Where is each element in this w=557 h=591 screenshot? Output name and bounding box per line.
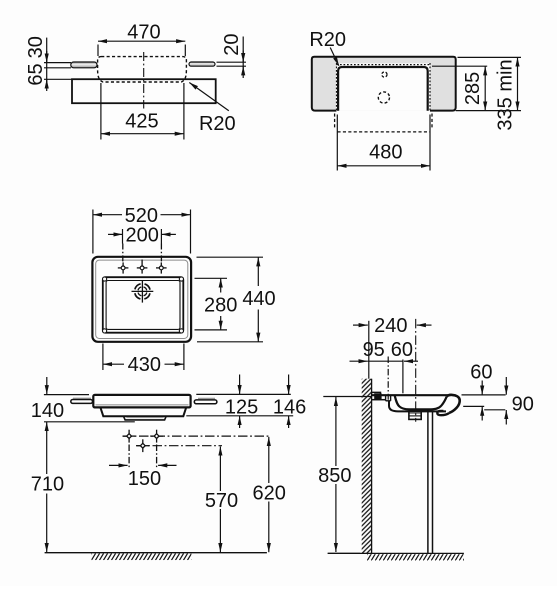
dim 850 [328, 397, 361, 553]
dim 146 arrows [288, 375, 290, 429]
dim 30 / 65 left column [44, 38, 73, 91]
dim 150 [109, 464, 177, 466]
supply centreline horizontal (620 datum) [123, 435, 272, 437]
basin lower body [100, 407, 186, 416]
basin section: wall bracket (solid) [374, 393, 381, 399]
towel bar right (gray pill) [189, 62, 215, 66]
svg-text:570: 570 [205, 490, 238, 512]
dim 480 [337, 115, 430, 171]
svg-text:240: 240 [374, 315, 407, 337]
basin section: bottom exterior [389, 401, 446, 412]
svg-text:60: 60 [470, 361, 492, 383]
dim 335 min [456, 57, 521, 110]
svg-text:425: 425 [125, 111, 158, 133]
supply centreline horizontal (570 datum) [136, 445, 222, 447]
bowl outer edge [103, 277, 184, 333]
dim 90 (right) [484, 377, 506, 425]
svg-text:140: 140 [31, 400, 64, 422]
basin cutout white area [336, 63, 430, 110]
floor hatching (view E) [367, 554, 464, 561]
dim 620 [268, 437, 270, 552]
svg-text:65: 65 [25, 63, 47, 85]
supply point centre (drain) [136, 439, 149, 452]
counter gray surface [312, 57, 456, 111]
dim 285 [432, 66, 487, 110]
basin section: mounting ledge underside [372, 399, 385, 401]
dim 140 [46, 377, 48, 394]
R20 leader arrow (view B) [330, 48, 339, 66]
tap hole left [118, 244, 129, 274]
drain tab [124, 416, 167, 420]
svg-text:30: 30 [25, 36, 47, 58]
drain target symbol [132, 280, 154, 302]
svg-text:440: 440 [242, 288, 275, 310]
dim 280 [195, 278, 228, 330]
svg-text:R20: R20 [309, 29, 346, 51]
dim 240 [353, 321, 432, 379]
bowl inner edge [106, 281, 180, 330]
dim 425 [101, 83, 184, 140]
svg-text:150: 150 [128, 468, 161, 490]
rim top reference line right [196, 393, 290, 395]
svg-text:95: 95 [363, 339, 385, 361]
svg-text:480: 480 [369, 142, 402, 164]
basin outer rim [92, 257, 191, 342]
dim 60 (right) [462, 381, 506, 421]
basin section: rim top surface [372, 394, 451, 396]
dim 20 right column [217, 37, 247, 79]
bowl corner dots [103, 277, 184, 333]
floor line (view E) [328, 552, 464, 554]
basin hidden contour (dashed rounded rect) [98, 57, 187, 82]
rim level reference line (850 datum) [323, 396, 371, 398]
bottom reference line left (140/710 datum) [44, 421, 135, 423]
wall hatching [362, 379, 372, 554]
svg-text:850: 850 [318, 465, 351, 487]
basin hidden bottom (dashed) [335, 114, 432, 132]
svg-text:60: 60 [391, 339, 413, 361]
towel rail right (front) [198, 397, 215, 399]
svg-text:710: 710 [31, 474, 64, 496]
svg-text:90: 90 [512, 393, 534, 415]
drain tab shade [127, 417, 164, 419]
towel bar left (gray pill) [71, 62, 97, 68]
dim 440 [197, 257, 264, 342]
basin section: back lip [372, 392, 381, 395]
tap hole right [156, 244, 167, 274]
supply point left [123, 430, 136, 469]
basin section: front rim and face [447, 395, 460, 413]
basin section: bowl interior [395, 395, 447, 409]
svg-text:R20: R20 [199, 113, 236, 135]
dim 470 [98, 41, 185, 56]
floor line (view D) [45, 552, 267, 554]
cutout dotted hidden edge [337, 63, 431, 111]
svg-text:200: 200 [126, 225, 159, 247]
svg-text:125: 125 [225, 397, 258, 419]
svg-text:280: 280 [204, 294, 237, 316]
faucet hole (dashed circle) [382, 72, 387, 77]
rim top reference line left [44, 394, 89, 396]
dim 125 arrows [239, 375, 241, 429]
svg-text:335 min: 335 min [495, 59, 517, 130]
counter body rectangle [72, 79, 216, 103]
svg-text:470: 470 [127, 21, 160, 43]
basin section: tap hole walls [386, 395, 391, 401]
basin section: towel-rail hook [437, 411, 449, 415]
svg-text:430: 430 [128, 354, 161, 376]
counter outline left block [312, 57, 456, 111]
dim 520 [93, 210, 191, 254]
svg-text:520: 520 [125, 205, 158, 227]
dim 95 / 60 [350, 357, 419, 400]
svg-text:620: 620 [253, 483, 286, 505]
bottom reference line right (125/146 datum) [186, 415, 293, 417]
basin rim (front) [93, 395, 190, 408]
R20 leader arrow (view A) [189, 83, 229, 111]
drain trap box [409, 411, 421, 419]
pedestal front lines [428, 412, 433, 554]
wall face line [371, 379, 373, 554]
dim 430 [103, 344, 184, 371]
drain hole (dashed circle) [378, 92, 389, 103]
tap hole centre [137, 260, 148, 274]
dim 570 [219, 447, 221, 553]
centerline vertical [143, 52, 145, 109]
basin outline (solid) [338, 67, 428, 111]
svg-text:20: 20 [221, 33, 243, 55]
towel rail left (front) [73, 397, 91, 399]
svg-text:285: 285 [462, 72, 484, 105]
floor hatching (view D) [91, 554, 191, 561]
rim inner shade line [96, 404, 189, 406]
drain centreline (vertical dash-dot) [415, 319, 417, 422]
svg-text:146: 146 [273, 397, 306, 419]
dim 710 [46, 422, 48, 552]
dim 200 [108, 229, 176, 244]
supply point right [150, 430, 163, 469]
basin rim inner edge (thin) [96, 260, 188, 338]
